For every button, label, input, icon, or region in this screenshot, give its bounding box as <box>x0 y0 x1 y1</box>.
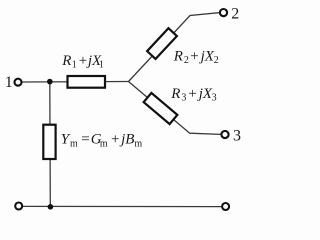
terminal 3 <box>221 131 228 138</box>
resistor R3 <box>144 93 178 124</box>
wire: vertical shunt branch <box>49 82 52 207</box>
resistor R1 <box>68 76 106 88</box>
svg-text:R3+jX3: R3+jX3 <box>170 86 216 104</box>
terminal 2 <box>220 9 227 16</box>
wire: diagonal from Y-node down to terminal 3 <box>129 82 221 135</box>
wire: bottom return conductor <box>23 205 221 207</box>
resistor R2 <box>147 28 177 59</box>
svg-text:Ym=Gm+jBm: Ym=Gm+jBm <box>61 132 143 150</box>
junction dot at Y-node branch (node A) <box>47 79 53 85</box>
admittance box Ym <box>43 125 55 159</box>
wire: main horizontal from terminal 1 to Y-node <box>22 81 128 84</box>
svg-text:1: 1 <box>5 74 13 91</box>
terminal 1 <box>15 79 22 86</box>
svg-text:2: 2 <box>231 5 239 22</box>
junction dot on bottom conductor <box>48 204 54 210</box>
svg-text:3: 3 <box>233 128 241 145</box>
svg-text:R2+jX2: R2+jX2 <box>173 48 219 66</box>
terminal bottom-right <box>222 203 229 210</box>
terminal bottom-left <box>15 203 22 210</box>
wire: diagonal from Y-node up to terminal 2 <box>129 13 219 82</box>
svg-text:R1+jX1: R1+jX1 <box>61 53 104 71</box>
